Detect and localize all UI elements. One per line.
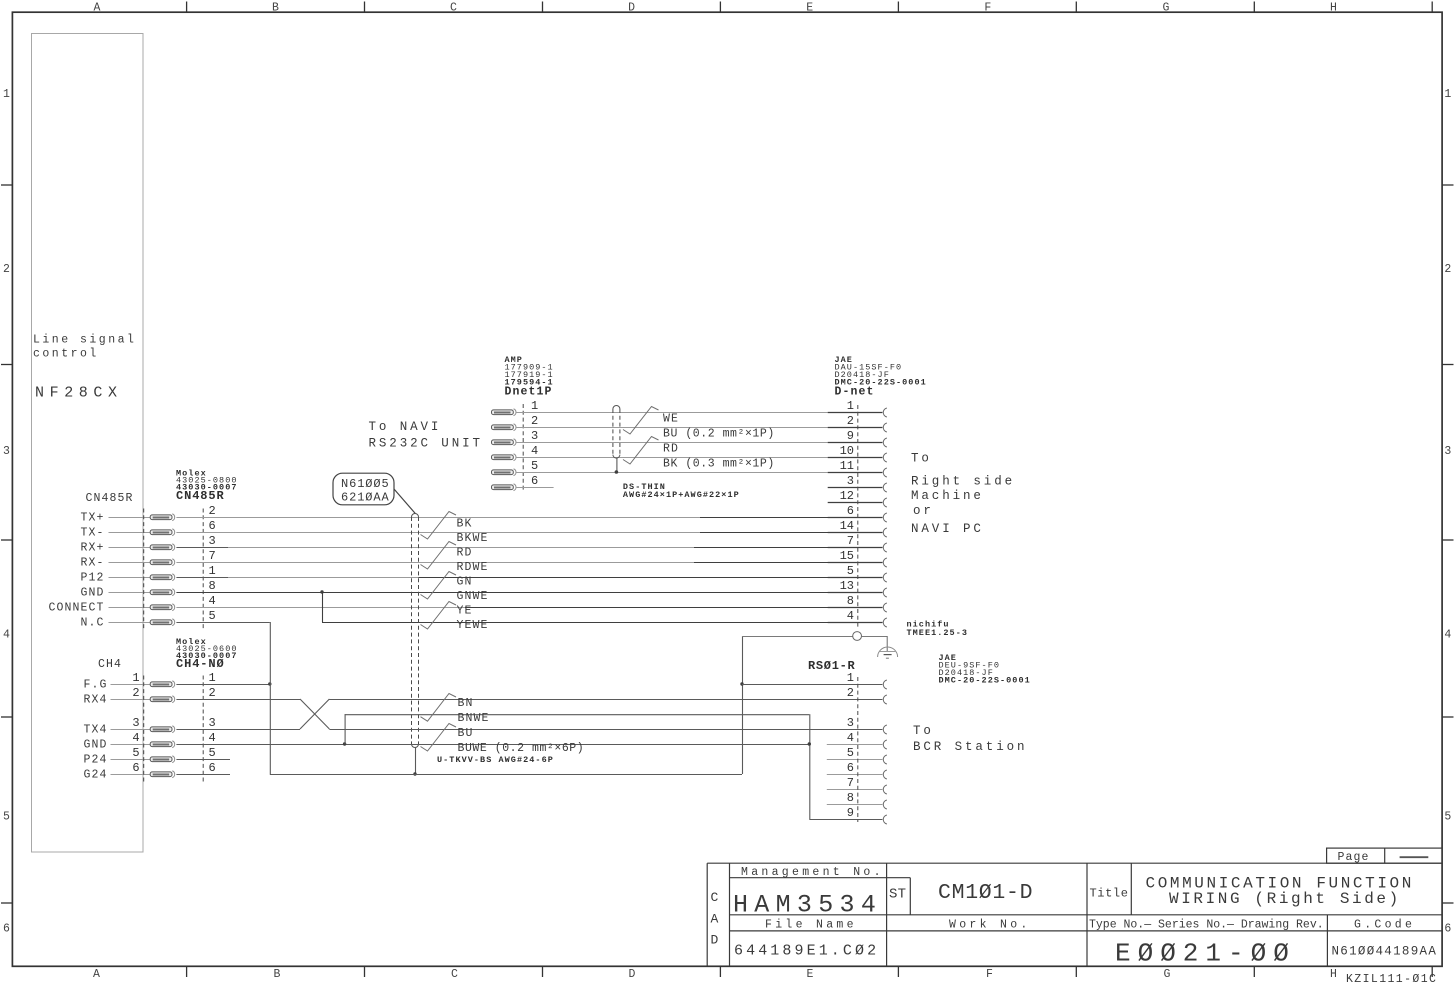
svg-text:TX+: TX+ bbox=[80, 512, 104, 525]
svg-text:5: 5 bbox=[531, 459, 538, 473]
socket contact D-net-8 bbox=[883, 603, 887, 612]
svg-text:1: 1 bbox=[209, 564, 216, 578]
svg-text:4: 4 bbox=[1444, 629, 1451, 642]
crimp pin CH4-4 bbox=[150, 741, 174, 748]
svg-text:Work No.: Work No. bbox=[949, 918, 1031, 931]
svg-text:8: 8 bbox=[209, 579, 216, 593]
svg-text:BK: BK bbox=[457, 518, 473, 531]
svg-text:644189E1.CØ2: 644189E1.CØ2 bbox=[734, 943, 879, 960]
socket contact D-net-11 bbox=[883, 468, 887, 477]
crimp pin CH4-2 bbox=[150, 696, 174, 703]
svg-text:BU (0.2 mm²×1P): BU (0.2 mm²×1P) bbox=[663, 428, 775, 441]
twisted pair mark BK/BKWE bbox=[421, 512, 457, 540]
svg-text:D: D bbox=[711, 933, 719, 948]
svg-text:4: 4 bbox=[132, 731, 139, 745]
socket contact D-net-13 bbox=[883, 588, 887, 597]
svg-text:15: 15 bbox=[840, 549, 854, 563]
svg-text:2: 2 bbox=[847, 414, 854, 428]
crimp pin Dnet1P-4 bbox=[492, 454, 516, 461]
svg-text:6: 6 bbox=[209, 761, 216, 775]
svg-text:H: H bbox=[1330, 968, 1337, 981]
svg-text:3: 3 bbox=[847, 474, 854, 488]
svg-text:11: 11 bbox=[840, 459, 854, 473]
junction F.G / N.C tie bbox=[268, 682, 271, 685]
pin stub D-net-4 bbox=[828, 622, 883, 624]
crimp pin CH4-6 bbox=[150, 771, 174, 778]
pin stub D-net-12 bbox=[828, 502, 883, 504]
wire ring terminal to ground bbox=[862, 636, 888, 638]
svg-text:CONNECT: CONNECT bbox=[48, 602, 104, 615]
svg-text:control: control bbox=[33, 348, 99, 361]
title text COMMUNICATION FUNCTION WIRING (Right Side) bbox=[1146, 874, 1414, 907]
socket contact D-net-1 bbox=[883, 408, 887, 417]
label Line signal control bbox=[33, 334, 136, 361]
svg-text:G: G bbox=[1164, 968, 1171, 981]
wire N.C stub bbox=[176, 622, 269, 624]
junction GND branch to D-net pin4 bbox=[320, 590, 323, 593]
border column letters top bbox=[94, 2, 1337, 15]
svg-text:Type No.— Series No.— Drawing: Type No.— Series No.— Drawing Rev. bbox=[1089, 918, 1324, 931]
pin stub D-net-9 bbox=[828, 442, 883, 444]
svg-text:YE: YE bbox=[457, 605, 473, 618]
shield drain DS-THIN cable bbox=[616, 458, 618, 472]
svg-text:4: 4 bbox=[209, 731, 216, 745]
wire BU to RS01-R pin3 bbox=[329, 729, 882, 731]
svg-text:E: E bbox=[806, 2, 813, 15]
crimp pin CH4-1 bbox=[150, 681, 174, 688]
ground symbol bbox=[878, 636, 898, 658]
svg-text:Machine: Machine bbox=[911, 489, 984, 503]
wire N.C/F.G vertical to ground bus bbox=[269, 622, 271, 774]
wire Dnet1P-6 stub bbox=[516, 487, 554, 489]
wire GND branch into D-net pin4 bbox=[322, 592, 324, 622]
svg-text:2: 2 bbox=[3, 263, 10, 276]
crimp pin CN485R-3 bbox=[150, 544, 174, 551]
connector boundary dashed (CH4 pin side) bbox=[202, 676, 204, 783]
svg-text:AWG#24×1P+AWG#22×1P: AWG#24×1P+AWG#22×1P bbox=[623, 490, 740, 500]
svg-text:BCR Station: BCR Station bbox=[913, 740, 1027, 754]
twisted pair mark BN/BNWE bbox=[421, 694, 457, 722]
svg-text:D: D bbox=[628, 2, 635, 15]
pin stub D-net-15 bbox=[828, 562, 883, 564]
svg-text:A: A bbox=[93, 968, 100, 981]
crimp pin CN485R-5 bbox=[150, 619, 174, 626]
svg-text:C: C bbox=[711, 890, 719, 905]
svg-text:7: 7 bbox=[847, 534, 854, 548]
crimp pin Dnet1P-3 bbox=[492, 439, 516, 446]
wire ground bus riser bbox=[742, 636, 744, 774]
svg-text:To: To bbox=[913, 724, 934, 738]
svg-text:C: C bbox=[451, 968, 458, 981]
svg-text:12: 12 bbox=[840, 489, 854, 503]
crimp pin Dnet1P-6 bbox=[492, 484, 516, 491]
svg-text:RDWE: RDWE bbox=[457, 561, 489, 574]
svg-text:GN: GN bbox=[457, 576, 473, 589]
socket contact D-net-15 bbox=[883, 558, 887, 567]
crimp pin Dnet1P-1 bbox=[492, 409, 516, 416]
svg-text:5: 5 bbox=[132, 746, 139, 760]
svg-text:2: 2 bbox=[209, 686, 216, 700]
svg-text:3: 3 bbox=[847, 716, 854, 730]
svg-text:7: 7 bbox=[847, 776, 854, 790]
svg-text:6: 6 bbox=[531, 474, 538, 488]
svg-text:B: B bbox=[274, 968, 281, 981]
wire TX4 bbox=[176, 729, 300, 731]
socket contact RS01-R-5 bbox=[883, 755, 887, 764]
lead wire G24 to pin bbox=[111, 774, 151, 776]
svg-text:F: F bbox=[986, 968, 993, 981]
svg-text:1: 1 bbox=[847, 399, 854, 413]
socket contact RS01-R-6 bbox=[883, 770, 887, 779]
pin stub D-net-7 bbox=[828, 547, 883, 549]
svg-text:6: 6 bbox=[209, 519, 216, 533]
svg-text:A: A bbox=[94, 2, 101, 15]
svg-text:P24: P24 bbox=[83, 754, 107, 767]
svg-text:or: or bbox=[913, 504, 934, 518]
wire BNWE branch vertical bbox=[344, 714, 346, 744]
svg-text:GND: GND bbox=[83, 739, 107, 752]
pin stub D-net-3 bbox=[828, 487, 883, 489]
svg-text:To NAVI: To NAVI bbox=[369, 420, 442, 434]
svg-text:6: 6 bbox=[3, 922, 10, 935]
lead wire F.G to pin bbox=[111, 684, 151, 686]
connector boundary dashed Dnet1P bbox=[522, 404, 524, 492]
socket contact D-net-9 bbox=[883, 438, 887, 447]
svg-text:6: 6 bbox=[847, 504, 854, 518]
svg-text:2: 2 bbox=[1444, 263, 1451, 276]
wire RX+ / RD bbox=[176, 547, 228, 549]
svg-text:NF28CX: NF28CX bbox=[35, 385, 123, 402]
wire G24 stub bbox=[176, 774, 230, 776]
svg-text:5: 5 bbox=[1444, 811, 1451, 824]
socket contact D-net-3 bbox=[883, 483, 887, 492]
svg-text:BK (0.3 mm²×1P): BK (0.3 mm²×1P) bbox=[663, 458, 775, 471]
svg-text:2: 2 bbox=[531, 414, 538, 428]
pin stubs RS01-R 4-8 bbox=[827, 745, 883, 805]
balloon cable type N61005 6210AA bbox=[333, 473, 415, 513]
svg-text:WE: WE bbox=[663, 413, 679, 426]
svg-text:6: 6 bbox=[847, 761, 854, 775]
svg-text:B: B bbox=[272, 2, 279, 15]
svg-text:1: 1 bbox=[531, 399, 538, 413]
svg-text:3: 3 bbox=[1444, 445, 1451, 458]
cable sheath dashed capsule (DS-THIN cable) bbox=[613, 406, 620, 459]
crimp pin Dnet1P-5 bbox=[492, 469, 516, 476]
socket contact D-net-5 bbox=[883, 573, 887, 582]
page box bbox=[1327, 848, 1443, 864]
svg-text:RX-: RX- bbox=[80, 557, 104, 570]
wire RS01-R pin1 feed bbox=[742, 684, 882, 686]
lead wire RX+ to pin bbox=[109, 547, 151, 549]
crimp pin CH4-3 bbox=[150, 726, 174, 733]
pin stub D-net-1 bbox=[828, 412, 883, 414]
lead wire GND to pin bbox=[111, 744, 151, 746]
svg-text:E: E bbox=[807, 968, 814, 981]
ground bus wire to RS01-R bbox=[270, 774, 742, 776]
svg-text:RS232C UNIT: RS232C UNIT bbox=[369, 437, 483, 451]
twisted pair mark WE/BU bbox=[623, 407, 659, 435]
part info Molex CN485R bbox=[176, 468, 238, 503]
lead wire TX+ to pin bbox=[109, 517, 151, 519]
border row numbers left bbox=[3, 88, 10, 935]
connector boundary dashed RS01-R bbox=[857, 677, 859, 822]
pin stub D-net-6 bbox=[828, 517, 883, 519]
wire P24 stub bbox=[176, 759, 230, 761]
svg-text:10: 10 bbox=[840, 444, 854, 458]
label To BCR Station bbox=[913, 724, 1027, 754]
crimp pin CN485R-4 bbox=[150, 604, 174, 611]
cable type DS-THIN AWG#24x1P+AWG#22x1P bbox=[623, 482, 740, 500]
svg-text:5: 5 bbox=[3, 811, 10, 824]
connector boundary dashed D-net bbox=[857, 405, 859, 628]
lead wire GND to pin bbox=[109, 592, 151, 594]
socket contact RS01-R-3 bbox=[883, 725, 887, 734]
lead wire TX4 to pin bbox=[111, 729, 151, 731]
svg-text:1: 1 bbox=[132, 671, 139, 685]
pin stub D-net-11 bbox=[828, 472, 883, 474]
pin stub D-net-10 bbox=[828, 457, 883, 459]
svg-text:NAVI PC: NAVI PC bbox=[911, 522, 984, 536]
svg-text:2: 2 bbox=[209, 504, 216, 518]
ring terminal nichifu TMEE1.25-3 bbox=[853, 632, 862, 641]
cable shield drain to ground wire bbox=[415, 748, 417, 775]
svg-text:GND: GND bbox=[80, 587, 104, 600]
part info JAE RS01-R bbox=[939, 653, 1031, 686]
twisted pair mark YE/YEWE bbox=[421, 602, 457, 630]
svg-text:Management No.: Management No. bbox=[741, 866, 884, 879]
wire P12 / GN bbox=[176, 577, 228, 579]
wire Dnet1P-1 / WE bbox=[516, 412, 828, 414]
border column letters bottom bbox=[93, 968, 1337, 981]
crossover RX4/TX4 bbox=[300, 699, 329, 729]
svg-text:RD: RD bbox=[457, 547, 473, 560]
pin stub D-net-13 bbox=[828, 592, 883, 594]
svg-text:BUWE (0.2 mm²×6P): BUWE (0.2 mm²×6P) bbox=[458, 742, 585, 755]
lead wire P24 to pin bbox=[111, 759, 151, 761]
connector boundary dashed (CN485R cable side) bbox=[143, 509, 145, 630]
svg-text:RX+: RX+ bbox=[80, 542, 104, 555]
wire F.G to junction bbox=[176, 684, 269, 686]
svg-text:BN: BN bbox=[458, 697, 474, 710]
socket contact D-net-4 bbox=[883, 618, 887, 627]
svg-text:1: 1 bbox=[847, 671, 854, 685]
wire to ring terminal bbox=[742, 636, 853, 638]
lead wire TX- to pin bbox=[109, 532, 151, 534]
socket contact D-net-10 bbox=[883, 453, 887, 462]
wire BN to RS01-R pin2 bbox=[329, 699, 882, 701]
svg-text:H: H bbox=[1330, 2, 1337, 15]
socket contact D-net-7 bbox=[883, 543, 887, 552]
svg-text:13: 13 bbox=[840, 579, 854, 593]
svg-text:CN485R: CN485R bbox=[86, 492, 134, 505]
socket contact D-net-2 bbox=[883, 423, 887, 432]
pin stub D-net-14 bbox=[828, 532, 883, 534]
wire Dnet1P-3 / RD bbox=[516, 442, 828, 444]
wire RX- / RDWE bbox=[176, 562, 694, 564]
svg-text:EØØ21-ØØ: EØØ21-ØØ bbox=[1115, 938, 1296, 968]
crimp pin CH4-5 bbox=[150, 756, 174, 763]
twisted pair mark GN/GNWE bbox=[421, 572, 457, 600]
svg-text:KZIL111-Ø1C: KZIL111-Ø1C bbox=[1346, 973, 1437, 986]
lead wire P12 to pin bbox=[109, 577, 151, 579]
svg-text:TMEE1.25-3: TMEE1.25-3 bbox=[907, 628, 969, 638]
socket contact RS01-R-1 bbox=[883, 680, 887, 689]
svg-text:3: 3 bbox=[531, 429, 538, 443]
svg-text:D-net: D-net bbox=[835, 385, 875, 398]
svg-text:Dnet1P: Dnet1P bbox=[505, 385, 553, 398]
svg-text:P12: P12 bbox=[80, 572, 104, 585]
svg-text:G: G bbox=[1162, 2, 1169, 15]
svg-text:1: 1 bbox=[209, 671, 216, 685]
svg-text:Right side: Right side bbox=[911, 475, 1015, 489]
svg-text:Title: Title bbox=[1090, 886, 1129, 900]
twisted pair mark BU/BUWE bbox=[421, 724, 457, 752]
svg-text:RX4: RX4 bbox=[83, 694, 107, 707]
svg-text:7: 7 bbox=[209, 549, 216, 563]
label To NAVI RS232C UNIT bbox=[369, 420, 483, 451]
pin stub D-net-2 bbox=[828, 427, 883, 429]
svg-text:CN485R: CN485R bbox=[176, 489, 225, 503]
socket contact RS01-R-4 bbox=[883, 740, 887, 749]
svg-text:1: 1 bbox=[3, 88, 10, 101]
wire TX+ / BK bbox=[176, 517, 700, 519]
svg-text:3: 3 bbox=[3, 445, 10, 458]
lead wire RX- to pin bbox=[109, 562, 151, 564]
wire RX4 bbox=[176, 699, 300, 701]
wire into RS01-R pin9 bbox=[809, 819, 882, 821]
svg-text:3: 3 bbox=[132, 716, 139, 730]
pin stub D-net-5 bbox=[828, 577, 883, 579]
svg-text:621ØAA: 621ØAA bbox=[341, 491, 390, 505]
wire TX- / BKWE bbox=[176, 532, 700, 534]
junction RS01-R pin1 feed bbox=[740, 682, 743, 685]
svg-text:9: 9 bbox=[847, 806, 854, 820]
lead wire CONNECT to pin bbox=[109, 607, 151, 609]
label CAD bbox=[711, 890, 719, 948]
svg-text:2: 2 bbox=[132, 686, 139, 700]
junction BUWE / BNWE vertical bbox=[808, 742, 811, 745]
socket contact RS01-R-9 bbox=[883, 815, 887, 824]
svg-text:N.C: N.C bbox=[80, 617, 104, 630]
svg-text:RD: RD bbox=[663, 443, 679, 456]
svg-text:4: 4 bbox=[3, 629, 10, 642]
label To Right side Machine or NAVI PC bbox=[911, 452, 1015, 537]
crimp pin CN485R-7 bbox=[150, 559, 174, 566]
svg-text:BNWE: BNWE bbox=[458, 712, 490, 725]
svg-text:6: 6 bbox=[1444, 922, 1451, 935]
crimp pin CN485R-1 bbox=[150, 574, 174, 581]
wire BNWE horizontal bbox=[345, 714, 810, 716]
lead wire N.C to pin bbox=[109, 622, 151, 624]
svg-text:9: 9 bbox=[847, 429, 854, 443]
svg-text:5: 5 bbox=[209, 609, 216, 623]
svg-text:DMC-20-22S-0001: DMC-20-22S-0001 bbox=[939, 676, 1031, 686]
svg-text:N61ØØ44189AA: N61ØØ44189AA bbox=[1332, 945, 1438, 959]
svg-text:CH4: CH4 bbox=[98, 658, 122, 671]
wire Dnet1P-5 bbox=[516, 472, 828, 474]
pin stub D-net-8 bbox=[828, 607, 883, 609]
crimp pin CN485R-2 bbox=[150, 514, 174, 521]
part info JAE D-net bbox=[835, 355, 927, 399]
connector boundary dashed (CN485R pin side) bbox=[202, 509, 204, 630]
part info AMP Dnet1P bbox=[505, 355, 554, 399]
svg-text:A: A bbox=[711, 912, 719, 927]
junction BNWE branch bbox=[343, 742, 346, 745]
svg-text:3: 3 bbox=[209, 716, 216, 730]
wire GND/BUWE bbox=[176, 744, 809, 746]
svg-text:YEWE: YEWE bbox=[457, 619, 489, 632]
svg-text:HAM3534: HAM3534 bbox=[733, 891, 882, 920]
svg-text:3: 3 bbox=[209, 534, 216, 548]
svg-text:F: F bbox=[984, 2, 991, 15]
svg-text:5: 5 bbox=[209, 746, 216, 760]
svg-text:CH4-NØ: CH4-NØ bbox=[176, 657, 225, 671]
wire Dnet1P-4 / BK bbox=[516, 457, 828, 459]
junction shield drain / ground wire bbox=[413, 772, 416, 775]
svg-text:D: D bbox=[629, 968, 636, 981]
connector boundary dashed (CH4 cable side) bbox=[143, 676, 145, 783]
svg-text:BKWE: BKWE bbox=[457, 532, 489, 545]
svg-text:5: 5 bbox=[847, 746, 854, 760]
svg-text:6: 6 bbox=[132, 761, 139, 775]
svg-text:BU: BU bbox=[458, 727, 474, 740]
title block frame bbox=[707, 863, 1442, 966]
svg-text:G.Code: G.Code bbox=[1354, 918, 1415, 931]
wire Dnet1P-2 / BU bbox=[516, 427, 828, 429]
svg-text:Page: Page bbox=[1338, 851, 1370, 864]
crimp pin Dnet1P-2 bbox=[492, 424, 516, 431]
socket contact RS01-R-8 bbox=[883, 800, 887, 809]
svg-text:C: C bbox=[450, 2, 457, 15]
unit NF28CX enclosure box bbox=[32, 34, 144, 853]
svg-text:2: 2 bbox=[847, 686, 854, 700]
crimp pin CN485R-6 bbox=[150, 529, 174, 536]
svg-text:CM1Ø1-D: CM1Ø1-D bbox=[938, 881, 1033, 905]
socket contact D-net-6 bbox=[883, 513, 887, 522]
svg-text:WIRING (Right Side): WIRING (Right Side) bbox=[1169, 890, 1401, 908]
twisted pair mark RD/RDWE bbox=[421, 542, 457, 570]
part info nichifu TMEE1.25-3 bbox=[907, 620, 969, 639]
border row numbers right bbox=[1444, 88, 1451, 935]
svg-text:G24: G24 bbox=[83, 769, 107, 782]
part info Molex CH4-N0 bbox=[176, 637, 238, 671]
svg-text:8: 8 bbox=[847, 594, 854, 608]
svg-text:5: 5 bbox=[847, 564, 854, 578]
svg-text:14: 14 bbox=[840, 519, 854, 533]
wire CONNECT / YE bbox=[176, 607, 465, 609]
svg-text:GNWE: GNWE bbox=[457, 590, 489, 603]
wire GND / GNWE bbox=[176, 592, 882, 594]
twisted pair mark RD/BK bbox=[623, 437, 659, 465]
svg-text:Line signal: Line signal bbox=[33, 334, 136, 347]
svg-text:1: 1 bbox=[1444, 88, 1451, 101]
crimp pin CN485R-8 bbox=[150, 589, 174, 596]
svg-text:8: 8 bbox=[847, 791, 854, 805]
svg-text:4: 4 bbox=[531, 444, 538, 458]
svg-text:ST: ST bbox=[889, 887, 906, 903]
svg-text:4: 4 bbox=[847, 609, 854, 623]
svg-text:TX-: TX- bbox=[80, 527, 104, 540]
socket contact D-net-14 bbox=[883, 528, 887, 537]
svg-text:To: To bbox=[911, 452, 932, 466]
socket contact RS01-R-2 bbox=[883, 695, 887, 704]
svg-text:File Name: File Name bbox=[765, 918, 857, 931]
svg-text:4: 4 bbox=[209, 594, 216, 608]
socket contact RS01-R-7 bbox=[883, 785, 887, 794]
junction drain on wire 5 bbox=[615, 470, 619, 474]
socket contact D-net-12 bbox=[883, 498, 887, 507]
svg-text:F.G: F.G bbox=[83, 679, 107, 692]
